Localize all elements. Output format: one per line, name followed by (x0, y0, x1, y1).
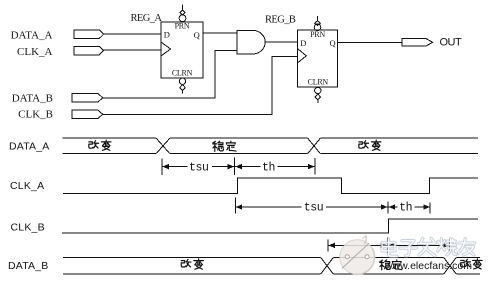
flip-flop U3 REG_B clock triangle (298, 49, 307, 63)
measure row1 th arrowheads (235, 164, 242, 169)
measure row2 tsu arrowheads (236, 204, 243, 209)
flip-flop U3 REG_B CLRN symbol (bubble, diamond, stub) (315, 87, 321, 93)
svg-text:PRN: PRN (310, 30, 325, 39)
waveform DATA_A crossover 1 (156, 138, 170, 153)
svg-text:CLK_B: CLK_B (11, 221, 45, 233)
timing diagram signal name labels (8, 141, 50, 272)
waveform DATA_A bus bottom line (63, 153, 479, 155)
wire CLK_A pad to REG_A clock (104, 49, 161, 51)
wire DATA_A pad to REG_A D (104, 33, 161, 35)
wire REG_A Q to AND gate input 1 (203, 32, 237, 34)
output pad OUT (402, 38, 433, 46)
measure row2 tick middle (387, 202, 389, 214)
measure row2 th arrow line (388, 206, 430, 208)
svg-text:www.elecfans.com: www.elecfans.com (384, 260, 472, 272)
waveform DATA_B crossover 2 (444, 257, 457, 274)
measure row1 tick right (314, 158, 316, 175)
text gaibian (change) DATA_B segment 1 (181, 259, 191, 267)
watermark text dianzifashaoyou (elecfans) outer (382, 238, 475, 256)
measure row1 tsu arrow line (162, 166, 235, 168)
svg-text:OUT: OUT (440, 37, 463, 49)
input pad DATA_B (72, 94, 103, 103)
flip-flop U1 REG_A PRN symbol (stub, diamond, bubble) (182, 5, 184, 11)
svg-text:DATA_A: DATA_A (9, 141, 50, 153)
waveform DATA_A crossover 2 (308, 138, 321, 153)
svg-text:CLK_A: CLK_A (17, 46, 53, 58)
watermark text dianzifashaoyou (elecfans) inner hollow (382, 238, 475, 256)
measure row1 tick middle (234, 158, 236, 176)
svg-text:Q: Q (329, 38, 335, 48)
AND gate U2 (237, 30, 265, 54)
svg-text:th: th (399, 202, 412, 215)
svg-text:REG_A: REG_A (131, 13, 163, 24)
measure row3 arrowheads th (388, 243, 395, 248)
wire DATA_B pad to AND gate input 2 (103, 51, 237, 98)
svg-text:CLRN: CLRN (172, 68, 193, 77)
wire REG_B Q to OUT pad (338, 41, 403, 43)
flip-flop U3 REG_B PRN symbol (stub, diamond, bubble) (317, 16, 319, 21)
input pad DATA_A (74, 30, 104, 38)
measure row3 arrowheads tsu (328, 243, 335, 248)
svg-text:D: D (300, 38, 306, 48)
svg-text:D: D (164, 30, 170, 40)
measure row2 tick right (429, 203, 431, 214)
measure row3 tick middle (386, 238, 388, 254)
measure row1 tsu arrowheads (162, 164, 169, 169)
flip-flop U3 REG_B body (298, 30, 338, 87)
wire CLK_B pad to REG_B clock (103, 56, 298, 114)
measure row1 th arrow line (235, 166, 315, 168)
flip-flop U1 REG_A body (161, 22, 203, 78)
waveform DATA_B bus top line (63, 256, 480, 258)
svg-text:tsu: tsu (304, 202, 324, 215)
measure row3 tick right (448, 240, 450, 254)
measure row2 tsu arrow line (235, 206, 387, 208)
waveform DATA_B bus bottom line (63, 273, 480, 275)
waveform DATA_A bus top line (63, 137, 479, 139)
measure row3 tick left (327, 240, 329, 252)
input pad CLK_A (74, 47, 104, 55)
text gaibian (change) DATA_A segment 3 (359, 141, 369, 149)
measure row2 th arrowheads (389, 204, 396, 209)
svg-text:th: th (262, 161, 275, 174)
svg-text:PRN: PRN (175, 22, 190, 31)
watermark logo disc (340, 236, 375, 275)
svg-text:tsu: tsu (189, 161, 209, 174)
svg-text:REG_B: REG_B (265, 14, 296, 25)
waveform CLK_A (63, 178, 478, 194)
svg-text:Q: Q (194, 30, 200, 40)
schematic labels (11, 13, 462, 121)
input pad CLK_B (72, 110, 103, 118)
svg-text:CLK_A: CLK_A (10, 180, 44, 192)
waveform DATA_B crossover 1 (321, 257, 334, 274)
text gaibian (change) DATA_A segment 1 (89, 141, 99, 149)
text gaibian (change) DATA_B segment 3 (461, 259, 471, 267)
text wending (stable) DATA_B segment 2 (380, 260, 391, 270)
flip-flop U1 REG_A CLRN symbol (bubble, diamond, stub) (179, 78, 185, 84)
svg-text:CLRN: CLRN (308, 77, 329, 86)
measure row2 tick left (234, 198, 236, 214)
measure row1 tick left (161, 158, 163, 175)
svg-text:DATA_B: DATA_B (8, 260, 49, 272)
wire AND output to REG_B D (265, 41, 297, 43)
svg-text:DATA_A: DATA_A (11, 29, 53, 41)
flip-flop U1 REG_A clock triangle (161, 42, 171, 56)
svg-text:CLK_B: CLK_B (18, 109, 53, 121)
waveform CLK_B (62, 219, 478, 233)
text wending (stable) DATA_A segment 2 (213, 141, 224, 151)
svg-text:DATA_B: DATA_B (12, 93, 53, 105)
measure row3 arrow line th span (387, 244, 449, 246)
measure row3 arrow line tsu span (328, 244, 387, 246)
